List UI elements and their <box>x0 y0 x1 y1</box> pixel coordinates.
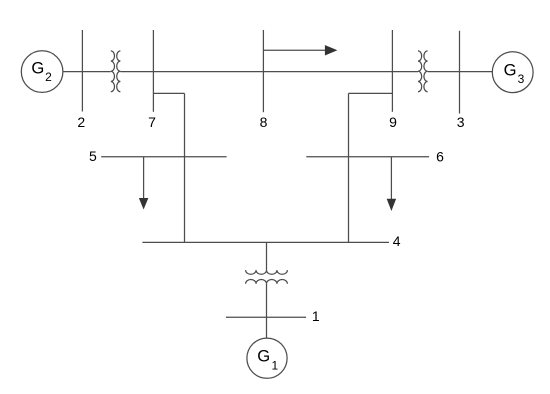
label 5 <box>89 148 97 164</box>
bus 7 <box>152 30 154 112</box>
wire bus 7 to corner (line 7-5) <box>153 92 184 94</box>
svg-text:3: 3 <box>457 114 465 130</box>
flow arrow at bus 8 <box>263 46 336 56</box>
generator G2 <box>21 51 63 93</box>
svg-text:3: 3 <box>518 72 525 86</box>
wire transformer T2 to G3 <box>428 71 493 73</box>
svg-text:G: G <box>504 60 517 79</box>
wire corner down to bus 4 (line 5-4 branch) <box>184 93 186 242</box>
label 6 <box>436 148 444 164</box>
label G1 <box>257 347 278 373</box>
svg-text:8: 8 <box>260 114 268 130</box>
svg-text:4: 4 <box>393 233 401 249</box>
svg-text:2: 2 <box>77 114 85 130</box>
wire transformer T1 to transformer T2 (through buses 7,8,9) <box>120 71 418 73</box>
label 2 <box>77 114 85 130</box>
bus 4 <box>142 241 389 243</box>
load arrow at bus 6 <box>387 157 396 211</box>
bus 1 <box>226 316 306 318</box>
label 4 <box>393 233 401 249</box>
label G2 <box>31 59 52 85</box>
label 3 <box>457 114 465 130</box>
wire G2 to transformer T1 <box>63 71 111 73</box>
bus 6 <box>306 156 429 158</box>
bus 5 <box>101 156 226 158</box>
svg-text:5: 5 <box>89 148 97 164</box>
generator G1 <box>247 338 287 378</box>
bus 3 <box>459 31 461 114</box>
label 9 <box>389 114 397 130</box>
wire transformer T3 to bus 1 <box>266 284 268 318</box>
svg-text:7: 7 <box>148 114 156 130</box>
wire corner down to bus 4 (line 6-4 branch) <box>348 93 350 242</box>
bus 8 <box>262 30 264 112</box>
label 8 <box>260 114 268 130</box>
svg-text:G: G <box>31 59 44 78</box>
wire bus 4 to transformer T3 <box>266 242 268 270</box>
svg-text:6: 6 <box>436 148 444 164</box>
load arrow at bus 5 <box>139 157 148 209</box>
transformer T2 winding left <box>418 51 422 92</box>
wire bus 9 to corner (line 9-6) <box>349 92 393 94</box>
transformer T2 winding right <box>424 51 428 92</box>
bus 9 <box>391 30 393 112</box>
transformer T3 winding bottom <box>246 279 288 283</box>
svg-text:2: 2 <box>45 70 52 84</box>
svg-text:1: 1 <box>312 308 320 324</box>
transformer T1 winding left <box>111 51 115 92</box>
generator G3 <box>492 52 533 93</box>
transformer T1 winding right <box>117 51 121 92</box>
svg-text:9: 9 <box>389 114 397 130</box>
label 7 <box>148 114 156 130</box>
label G3 <box>504 60 525 86</box>
bus 2 <box>81 30 83 112</box>
svg-text:G: G <box>257 347 270 366</box>
transformer T3 winding top <box>246 270 288 274</box>
svg-text:1: 1 <box>272 359 279 373</box>
label 1 <box>312 308 320 324</box>
wire bus 1 to generator G1 <box>266 317 268 338</box>
